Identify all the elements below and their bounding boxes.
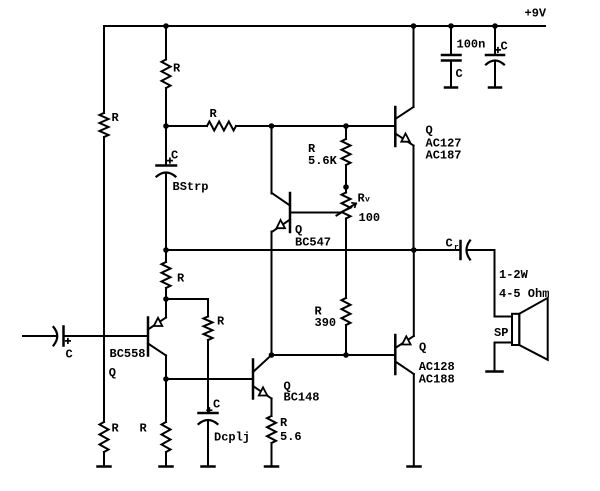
capacitor Cr (output, electrolytic) (446, 237, 471, 260)
svg-text:100: 100 (359, 211, 381, 225)
node junction dot x413.5 y26 (411, 23, 417, 29)
wire R to node x166 y299 (165, 288, 167, 299)
svg-text:R: R (210, 107, 218, 121)
ground (AC128) (408, 465, 421, 468)
capacitor C (electrolytic, top right) (486, 26, 508, 88)
ground (left rail) (98, 465, 111, 468)
wire x166 y379 down to R (165, 379, 167, 422)
transistor Q BC148 (253, 355, 320, 405)
wire speaker to ground (494, 343, 496, 372)
wire R5.6 to ground (271, 443, 273, 466)
node junction dot x166 y379 (163, 376, 169, 382)
resistor R (upper left) (100, 113, 109, 137)
wire BC558 emitter up to node y299 (165, 299, 167, 318)
svg-text:AC188: AC188 (419, 373, 455, 387)
svg-text:BC148: BC148 (284, 391, 320, 405)
svg-text:Q: Q (419, 341, 426, 355)
node junction dot x271.5 y355 (269, 352, 275, 358)
svg-text:C: C (66, 348, 73, 362)
svg-text:Dcplj: Dcplj (214, 431, 250, 445)
ground (x166) (160, 465, 173, 468)
resistor R (horizontal) (207, 122, 236, 131)
capacitor C (input, electrolytic) (23, 327, 148, 362)
capacitor C Dcplj (electrolytic) (199, 398, 251, 445)
transistor Q AC128/AC188 (395, 335, 454, 387)
svg-text:Q: Q (109, 366, 116, 380)
transistor Q BC547 (273, 193, 332, 250)
wire AC128 collector to ground (413, 374, 415, 466)
svg-text:BC558: BC558 (110, 347, 146, 361)
node junction dot x346 y187 (343, 184, 349, 190)
resistor R (x166 bottom) (162, 422, 171, 452)
svg-text:C: C (213, 398, 220, 412)
svg-text:BStrp: BStrp (173, 180, 209, 194)
wire AC127 emitter down to y250 (413, 146, 415, 251)
resistor R 390 (342, 298, 351, 325)
wire horizontal y126 right part (236, 125, 395, 127)
node junction dot x166 y299 (163, 296, 169, 302)
svg-text:5.6K: 5.6K (308, 154, 338, 168)
node junction dot x346 y126 (343, 123, 349, 129)
wire BC148 emitter down (271, 399, 273, 417)
svg-text:5.6: 5.6 (280, 430, 302, 444)
node junction dot top rail x166 (163, 23, 169, 29)
svg-text:v: v (365, 196, 370, 205)
svg-text:100n: 100n (457, 38, 486, 52)
svg-text:C: C (456, 67, 463, 81)
resistor R (second column top) (162, 60, 171, 89)
wire R5.6K to Rv (345, 165, 347, 193)
wire second column top (165, 26, 167, 60)
wire R390 to node y355 (345, 325, 347, 355)
wire Dcplj to ground (207, 422, 209, 467)
node junction dot x166 y250 (163, 247, 169, 253)
wire base line y379 to BC148 (166, 378, 253, 380)
svg-text:Q: Q (426, 124, 433, 138)
capacitor C (100n) (442, 26, 485, 88)
transistor Q BC558 (109, 318, 166, 381)
node junction dot x166 y126 (163, 123, 169, 129)
ground (Dcplj) (202, 465, 215, 468)
resistor R (x208) (204, 317, 213, 341)
svg-text:SP: SP (494, 326, 508, 340)
wire x346 to R5.6K (345, 126, 347, 139)
wire top +9V rail (104, 25, 545, 27)
resistor R 5.6K (342, 139, 351, 165)
svg-text:R: R (217, 315, 225, 329)
resistor R (second column middle) (162, 262, 171, 288)
wire horizontal y126 left part (166, 125, 207, 127)
resistor R 5.6 (267, 416, 276, 443)
transistor Q AC127/AC187 (395, 107, 461, 163)
wire to ground x166 (165, 452, 167, 466)
svg-text:r: r (454, 244, 459, 253)
svg-text:4-5 Ohm: 4-5 Ohm (499, 287, 549, 301)
svg-text:R: R (140, 422, 148, 436)
wire Rv down through y250 to R390 (345, 219, 347, 299)
node junction dot x271.5 y126 (269, 123, 275, 129)
resistor R (lower left) (100, 422, 109, 452)
wire left rail middle (103, 137, 105, 422)
svg-text:R: R (177, 272, 185, 286)
wire left rail vertical (103, 26, 105, 113)
wire branch y299 to x208 (166, 299, 208, 317)
wire AC127 collector to rail (413, 26, 415, 107)
wire BC547 base to Rv (290, 212, 343, 214)
svg-text:1-2W: 1-2W (499, 268, 529, 282)
wire BC547 emitter down (271, 232, 273, 356)
svg-text:R: R (173, 62, 181, 76)
svg-text:C: C (446, 237, 453, 251)
potentiometer Rv 100 (337, 192, 381, 226)
wire BStrp to junction y250 (165, 174, 167, 250)
wire left rail to ground (103, 452, 105, 466)
wire output y250 (166, 249, 460, 251)
node junction dot electrolytic rail (492, 23, 498, 29)
wire BC547 collector up (271, 126, 273, 194)
svg-text:+9V: +9V (525, 7, 547, 21)
svg-text:AC187: AC187 (426, 149, 462, 163)
wire y355 from node to AC128 base (272, 354, 396, 356)
svg-text:390: 390 (315, 316, 337, 330)
ground (speaker) (487, 370, 503, 373)
svg-text:R: R (280, 416, 288, 430)
svg-text:R: R (112, 111, 120, 125)
wire speaker top terminal (495, 316, 513, 318)
wire junction to R (165, 250, 167, 262)
wire AC128 emitter up to y250 (413, 250, 415, 336)
wire Cr to speaker corner (467, 250, 495, 317)
wire speaker bottom terminal (495, 342, 513, 344)
node junction dot 100n rail (448, 23, 454, 29)
svg-text:BC547: BC547 (295, 236, 331, 250)
wire second column to junction (165, 88, 167, 165)
svg-text:C: C (501, 40, 508, 54)
capacitor C BStrp (electrolytic) (157, 149, 209, 195)
wire x208 down to Dcplj (207, 340, 209, 413)
wire BC558 collector down to node y379 (165, 356, 167, 380)
speaker SP (494, 268, 549, 360)
node junction dot x346 y355 (343, 352, 349, 358)
node junction dot x413.8 y250 (411, 247, 417, 253)
ground (R5.6) (265, 465, 278, 468)
svg-text:R: R (112, 422, 120, 436)
